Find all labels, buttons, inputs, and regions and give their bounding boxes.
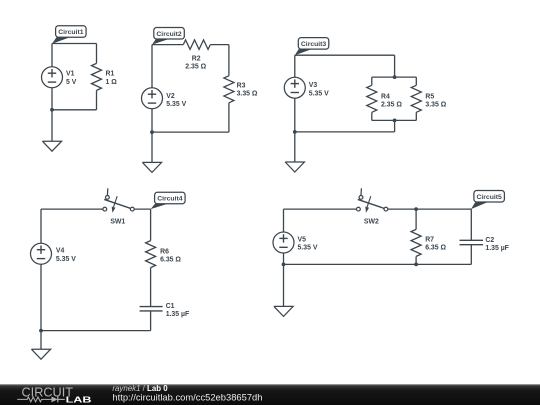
wire V3 bottom lead — [294, 98, 296, 132]
svg-text:C2: C2 — [485, 237, 494, 244]
wire ground lead Circuit4 — [40, 331, 42, 350]
svg-text:Circuit5: Circuit5 — [476, 194, 502, 201]
wire R6 to C1 — [150, 268, 152, 307]
wire V5 bottom lead — [283, 253, 285, 264]
label V3 value — [309, 82, 329, 97]
svg-text:R4: R4 — [381, 93, 390, 100]
label R2 value — [185, 56, 206, 71]
wire ground lead Circuit1 — [51, 110, 53, 141]
junction parallel top — [393, 75, 397, 79]
wire R7 top lead — [415, 209, 417, 229]
logo diode symbol — [52, 397, 65, 403]
node flag Circuit4 — [151, 192, 186, 209]
svg-text:Circuit4: Circuit4 — [157, 196, 183, 203]
svg-text:http://circuitlab.com/cc52eb38: http://circuitlab.com/cc52eb38657dh — [112, 391, 262, 402]
svg-text:SW2: SW2 — [364, 218, 379, 225]
svg-text:5.35 V: 5.35 V — [166, 101, 186, 108]
svg-text:1.35 µF: 1.35 µF — [485, 245, 509, 252]
voltage source V4 — [31, 243, 52, 264]
wire top-left Circuit5 — [284, 208, 357, 210]
switch SW2 — [357, 188, 388, 212]
wire C2 top lead — [470, 209, 472, 240]
svg-text:R6: R6 — [160, 248, 169, 255]
svg-text:Circuit1: Circuit1 — [58, 29, 84, 36]
svg-text:5 V: 5 V — [66, 79, 77, 86]
svg-text:V1: V1 — [66, 71, 75, 78]
svg-text:Circuit2: Circuit2 — [156, 31, 182, 38]
svg-text:V5: V5 — [298, 236, 307, 243]
svg-text:1 Ω: 1 Ω — [106, 79, 118, 86]
label V1 value — [66, 71, 77, 86]
label V4 value — [56, 248, 76, 263]
voltage source V1 — [42, 67, 63, 88]
wire parallel bottom bar — [372, 119, 417, 121]
wire bottom Circuit1 — [52, 109, 97, 111]
switch SW1 — [103, 188, 134, 212]
wire R7 bottom lead — [415, 256, 417, 264]
wire C2 bottom lead — [470, 245, 472, 265]
svg-text:R2: R2 — [192, 56, 201, 63]
wire ground lead Circuit5 — [283, 264, 285, 306]
ground Circuit2 — [142, 162, 161, 172]
wire V3 top lead — [294, 55, 296, 77]
wire R1 top lead — [96, 44, 98, 64]
svg-text:LAB: LAB — [66, 395, 92, 404]
node flag Circuit1 — [52, 26, 86, 44]
label V2 value — [166, 93, 186, 108]
wire R5 bottom lead — [415, 112, 417, 120]
svg-text:5.35 V: 5.35 V — [56, 256, 76, 263]
svg-text:3.35 Ω: 3.35 Ω — [237, 90, 258, 97]
label R5 value — [425, 93, 446, 108]
wire top Circuit1 — [52, 43, 97, 45]
svg-text:6.35 Ω: 6.35 Ω — [425, 245, 446, 252]
wire switch to node Circuit5 — [388, 208, 471, 210]
wire R4 bottom lead — [371, 112, 373, 120]
wire bottom Circuit3 — [295, 131, 395, 133]
label R4 value — [381, 93, 402, 108]
node flag Circuit3 — [295, 38, 329, 56]
label R6 value — [160, 248, 181, 263]
wire top-left Circuit4 — [41, 208, 103, 210]
resistor R3 — [224, 76, 234, 103]
wire R4 top lead — [371, 77, 373, 85]
resistor R5 — [411, 85, 421, 112]
wire bottom Circuit5 — [284, 263, 472, 265]
wire ground lead Circuit3 — [294, 132, 296, 162]
voltage source V5 — [273, 232, 294, 253]
wire R5 top lead — [415, 77, 417, 85]
resistor R4 — [367, 85, 377, 112]
wire R3 bottom lead — [228, 103, 230, 132]
wire V4 bottom lead — [40, 264, 42, 330]
wire V1 bottom lead — [51, 88, 53, 110]
junction R7 top — [414, 207, 418, 211]
junction Circuit2 bottom — [150, 130, 154, 134]
svg-text:5.35 V: 5.35 V — [298, 245, 318, 252]
ground Circuit3 — [285, 162, 304, 172]
junction R7 bottom — [414, 263, 418, 267]
wire down to parallel pair — [394, 55, 396, 77]
node flag Circuit2 — [152, 28, 184, 45]
ground Circuit5 — [274, 306, 293, 316]
label C1 value — [166, 303, 190, 318]
resistor R6 — [146, 241, 156, 268]
wire R6 top lead — [150, 209, 152, 241]
svg-text:5.35 V: 5.35 V — [309, 90, 329, 97]
svg-text:1.35 µF: 1.35 µF — [166, 311, 190, 318]
junction Circuit3 bottom — [293, 130, 297, 134]
svg-text:R7: R7 — [425, 236, 434, 243]
logo resistor squiggle — [17, 397, 51, 402]
svg-text:R3: R3 — [237, 83, 246, 90]
svg-text:C1: C1 — [166, 303, 175, 310]
wire C1 bottom lead — [150, 311, 152, 331]
wire V5 top lead — [283, 209, 285, 232]
junction Circuit1 bottom — [50, 108, 54, 112]
junction Circuit5 bottom — [282, 263, 286, 267]
label R1 value — [106, 71, 118, 86]
resistor R1 — [92, 63, 102, 90]
junction parallel bottom — [393, 119, 397, 123]
voltage source V3 — [284, 77, 305, 98]
svg-text:3.35 Ω: 3.35 Ω — [425, 101, 446, 108]
wire R1 bottom lead — [96, 90, 98, 109]
wire top-left Circuit2 — [152, 44, 183, 46]
svg-text:V3: V3 — [309, 82, 318, 89]
svg-text:6.35 Ω: 6.35 Ω — [160, 257, 181, 264]
wire V4 top lead — [40, 209, 42, 243]
label C2 value — [485, 237, 509, 252]
label R7 value — [425, 236, 446, 251]
label V5 value — [298, 236, 318, 251]
junction Circuit4 bottom — [39, 329, 43, 333]
ground Circuit4 — [31, 349, 50, 359]
wire bottom Circuit2 — [152, 131, 229, 133]
voltage source V2 — [142, 88, 163, 109]
svg-text:2.35 Ω: 2.35 Ω — [381, 101, 402, 108]
resistor R7 — [411, 229, 421, 256]
wire top-right Circuit2 — [210, 44, 229, 46]
ground Circuit1 — [42, 141, 61, 151]
svg-text:2.35 Ω: 2.35 Ω — [185, 63, 206, 70]
wire V2 bottom lead — [151, 109, 153, 132]
wire down from parallel pair — [394, 120, 396, 131]
resistor R2 — [183, 40, 210, 50]
svg-text:R5: R5 — [425, 93, 434, 100]
svg-text:V2: V2 — [166, 93, 175, 100]
label R3 value — [237, 83, 258, 98]
wire ground lead Circuit2 — [151, 132, 153, 162]
capacitor C2 — [460, 240, 484, 244]
wire V2 top lead — [151, 45, 153, 88]
svg-text:Circuit3: Circuit3 — [301, 41, 327, 48]
wire left V1 top lead — [51, 44, 53, 68]
wire switch to node Circuit4 — [134, 208, 150, 210]
svg-text:SW1: SW1 — [110, 218, 125, 225]
svg-text:V4: V4 — [56, 248, 65, 255]
wire bottom Circuit4 — [41, 330, 151, 332]
svg-text:R1: R1 — [106, 71, 115, 78]
wire top Circuit3 — [295, 54, 395, 56]
wire R3 top lead — [228, 45, 230, 76]
footer bar — [0, 384, 540, 405]
capacitor C1 — [140, 307, 163, 311]
wire parallel top bar — [372, 76, 417, 78]
node flag Circuit5 — [471, 191, 504, 210]
